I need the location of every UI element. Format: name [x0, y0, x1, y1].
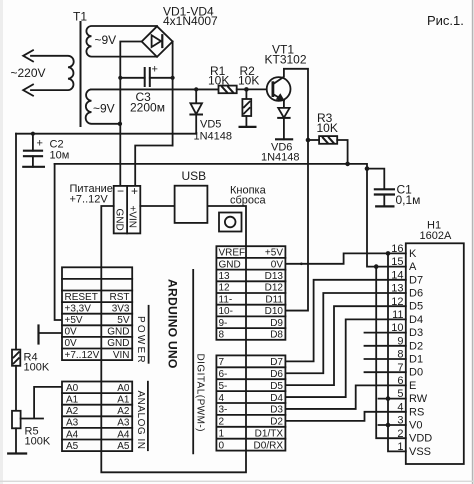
svg-text:D9: D9 [270, 318, 283, 329]
svg-text:KT3102: KT3102 [265, 53, 307, 67]
svg-text:2: 2 [397, 428, 403, 440]
svg-text:VD5: VD5 [200, 119, 221, 131]
wire R5 to ground [15, 428, 17, 453]
svg-text:~9V: ~9V [95, 33, 117, 47]
svg-text:D6: D6 [270, 369, 283, 380]
junction C2 plus [31, 132, 35, 136]
LCD pin7 D0 lead [365, 371, 406, 373]
svg-text:A0: A0 [66, 383, 79, 394]
wire B vertical to +5V pin [55, 164, 62, 320]
svg-text:1602A: 1602A [420, 230, 452, 242]
VT1 base bar [271, 83, 274, 96]
wire jog bridge+ to +VIN [135, 146, 172, 186]
svg-text:V0: V0 [409, 420, 422, 432]
svg-text:A0: A0 [117, 383, 130, 394]
svg-text:1N4148: 1N4148 [261, 152, 300, 164]
wire bridge left corner to C3 minus [120, 42, 141, 186]
svg-text:+7..12V: +7..12V [70, 194, 109, 206]
svg-text:D1/TX: D1/TX [255, 429, 284, 440]
capacitor C1 [375, 189, 394, 206]
svg-text:D6: D6 [409, 288, 423, 300]
resistor R1 [219, 86, 237, 94]
svg-text:10K: 10K [208, 74, 229, 88]
svg-text:POWER: POWER [135, 316, 146, 365]
rail R1 to VT1 base [237, 88, 273, 90]
junction ground line / V0 pin [386, 423, 391, 428]
LCD ground vertical [388, 253, 406, 451]
svg-text:A2: A2 [66, 406, 79, 417]
ground bar under R5 [8, 452, 26, 454]
LCD H1 box [406, 243, 464, 464]
svg-text:GND: GND [114, 209, 125, 231]
ground bar under R2 [240, 126, 256, 128]
svg-text:A2: A2 [117, 406, 130, 417]
svg-text:+: + [152, 64, 158, 76]
Arduino UNO outer box [101, 206, 246, 472]
digital lower table labels [219, 357, 284, 451]
ANALOG IN bracket [147, 382, 149, 451]
svg-text:6-: 6- [219, 369, 228, 380]
R5 wiper tap to A0 [21, 387, 62, 419]
svg-text:D12: D12 [265, 283, 284, 294]
junction bridge plus / C3 plus [171, 76, 175, 80]
svg-text:D11: D11 [265, 294, 283, 305]
VT1 collector [273, 69, 308, 311]
svg-text:2: 2 [219, 417, 225, 428]
VT1 emitter [273, 94, 284, 108]
wire D2 row to LCD pin4 RS [285, 412, 405, 421]
svg-text:4x1N4007: 4x1N4007 [163, 14, 218, 28]
svg-text:ARDUINO UNO: ARDUINO UNO [166, 279, 180, 369]
svg-text:+: + [131, 184, 138, 198]
svg-text:7: 7 [397, 362, 403, 374]
svg-text:3V3: 3V3 [112, 303, 130, 314]
svg-text:6: 6 [397, 375, 403, 387]
digital pin table upper [216, 246, 285, 340]
svg-text:+: + [37, 138, 43, 150]
svg-text:A4: A4 [117, 429, 130, 440]
svg-text:A3: A3 [66, 418, 79, 429]
0V ground stub left of power table [39, 326, 63, 344]
transformer T1 primary winding [31, 56, 74, 90]
svg-text:A5: A5 [117, 441, 130, 452]
left vertical wire to R4 [15, 134, 17, 350]
text labels [11, 5, 338, 136]
main rail winding to R1 [91, 88, 219, 90]
svg-text:0,1м: 0,1м [396, 193, 421, 207]
svg-text:5: 5 [397, 388, 403, 400]
svg-text:8: 8 [397, 349, 403, 361]
transistor VT1 circle [267, 77, 291, 101]
svg-text:T1: T1 [73, 10, 87, 24]
svg-text:D3: D3 [270, 405, 283, 416]
svg-text:12: 12 [219, 283, 231, 294]
capacitor C2 [24, 134, 42, 167]
svg-text:1: 1 [219, 429, 225, 440]
svg-text:D2: D2 [409, 340, 423, 352]
wire R4 to R5 [15, 366, 17, 411]
bridge rectifier VD1-VD4 diamond [142, 26, 173, 57]
svg-text:9-: 9- [219, 318, 228, 329]
LCD pin10 D3 lead [365, 332, 406, 334]
svg-text:D5: D5 [270, 381, 283, 392]
diode VD6 [278, 108, 289, 139]
wire bridge right corner down (C3 plus) [172, 42, 174, 146]
wire D3 row to LCD pin6 E [285, 385, 405, 409]
svg-text:~220V: ~220V [11, 66, 46, 80]
svg-text:RW: RW [409, 393, 428, 405]
svg-text:−: − [117, 184, 124, 198]
svg-text:11-: 11- [219, 294, 233, 305]
power table row labels [65, 292, 130, 361]
svg-text:2200м: 2200м [130, 101, 165, 115]
power connector box [114, 186, 141, 234]
svg-text:A4: A4 [66, 429, 79, 440]
LCD pin3 V0 lead [379, 424, 406, 426]
svg-text:GND: GND [219, 259, 241, 270]
ground bar under C1 [376, 205, 393, 207]
wire B +5V net horizontal [55, 164, 385, 189]
svg-text:13: 13 [391, 283, 403, 295]
arrow top lead ~220V [23, 50, 33, 61]
svg-text:5-: 5- [219, 381, 228, 392]
svg-text:16: 16 [391, 243, 403, 255]
reset button [219, 213, 242, 232]
svg-text:0V: 0V [271, 259, 284, 270]
junction +5V net / R3 [345, 162, 350, 167]
junction VT1 base / R2 [244, 87, 249, 92]
svg-text:4: 4 [397, 401, 403, 413]
svg-text:4: 4 [219, 393, 225, 404]
svg-text:A: A [409, 261, 417, 273]
svg-text:0V: 0V [65, 327, 78, 338]
svg-text:D1: D1 [409, 354, 423, 366]
svg-text:15: 15 [391, 256, 403, 268]
svg-text:VREF: VREF [219, 248, 246, 259]
LCD pin9 D2 lead [365, 345, 406, 347]
diode VD5 [190, 89, 202, 133]
svg-text:RS: RS [409, 406, 424, 418]
capacitor C3 plates [120, 68, 172, 86]
junction bridge minus / C3 minus [118, 76, 122, 80]
junction +5V net / LCD A branch [365, 166, 370, 171]
svg-text:VSS: VSS [409, 446, 431, 458]
junction ground line / K pin [386, 251, 391, 256]
svg-text:RST: RST [110, 292, 130, 303]
svg-text:A1: A1 [66, 395, 79, 406]
wire D6 row to LCD pin13 [285, 293, 405, 373]
secondary winding lower ~9V [86, 89, 219, 123]
ground bar under C2 [23, 166, 44, 168]
DIGITAL bracket [192, 270, 194, 454]
VDD vertical to pin2 [376, 267, 406, 439]
svg-text:D13: D13 [265, 271, 284, 282]
transformer T1 core [80, 22, 82, 126]
svg-text:13: 13 [219, 271, 231, 282]
svg-text:D7: D7 [270, 357, 283, 368]
svg-text:D8: D8 [270, 330, 283, 341]
left pin table POWER [62, 267, 132, 360]
LCD pin5 RW lead [379, 398, 406, 400]
LCD pin8 D1 lead [365, 358, 406, 360]
arrow bottom lead ~220V [23, 85, 33, 96]
svg-text:100K: 100K [24, 362, 50, 374]
svg-text:USB: USB [182, 169, 207, 183]
wire C2 rail to C3+ vertical [16, 133, 196, 135]
svg-text:10м: 10м [50, 150, 70, 162]
svg-text:1N4148: 1N4148 [194, 131, 233, 143]
svg-text:A5: A5 [66, 441, 79, 452]
svg-text:10K: 10K [238, 74, 259, 88]
svg-text:10-: 10- [219, 306, 233, 317]
svg-text:Рис.1.: Рис.1. [427, 13, 464, 28]
svg-text:VDD: VDD [409, 433, 432, 445]
svg-text:K: K [409, 248, 417, 260]
svg-text:D10: D10 [265, 306, 284, 317]
svg-text:12: 12 [391, 296, 403, 308]
svg-text:VIN: VIN [113, 350, 130, 361]
POWER bracket [148, 306, 150, 363]
wire D4 row to LCD pin11 [285, 319, 405, 397]
resistor R2 [242, 89, 251, 127]
LCD pin names [409, 248, 432, 458]
svg-text:+5V: +5V [65, 315, 83, 326]
digital pin table lower [216, 355, 285, 450]
svg-text:GND: GND [107, 338, 129, 349]
LCD pin numbers [391, 243, 403, 453]
svg-text:10K: 10K [317, 121, 338, 135]
VDD net dotB down to A pin [367, 169, 406, 267]
bridge diode symbol [152, 35, 163, 47]
svg-text:D4: D4 [270, 393, 283, 404]
junction collector / R3 [306, 138, 311, 143]
svg-text:11: 11 [392, 309, 403, 321]
svg-text:10: 10 [391, 322, 403, 334]
svg-text:1: 1 [397, 441, 403, 453]
wire D7 row to LCD pin14 [285, 280, 405, 362]
svg-text:9: 9 [397, 335, 403, 347]
analog table row labels [66, 383, 130, 452]
svg-text:~9V: ~9V [93, 102, 115, 116]
svg-text:D3: D3 [409, 327, 423, 339]
svg-text:D7: D7 [409, 274, 423, 286]
svg-text:100K: 100K [25, 436, 51, 448]
svg-text:D5: D5 [409, 301, 423, 313]
resistor R3 [308, 136, 348, 164]
svg-text:+VIN: +VIN [126, 206, 137, 229]
svg-text:5V: 5V [117, 315, 130, 326]
svg-text:ANALOG IN: ANALOG IN [135, 391, 146, 450]
svg-text:DIGITAL(PWM-): DIGITAL(PWM-) [195, 354, 206, 432]
svg-text:7: 7 [219, 357, 225, 368]
resistor R5 [12, 411, 21, 429]
svg-text:0V: 0V [65, 338, 78, 349]
svg-text:E: E [409, 380, 416, 392]
svg-text:A1: A1 [117, 395, 130, 406]
digital upper table labels [219, 248, 284, 341]
0V wire to LCD K and ground line [285, 253, 405, 263]
svg-text:14: 14 [391, 269, 403, 281]
wire D5 row to LCD pin12 [285, 306, 405, 385]
svg-text:D4: D4 [409, 314, 423, 326]
svg-text:+5V: +5V [265, 248, 283, 259]
svg-text:0: 0 [219, 440, 225, 451]
junction ground line / RW pin [386, 396, 391, 401]
junction wire A / minus lead [118, 122, 122, 126]
svg-text:3-: 3- [219, 405, 228, 416]
svg-text:3: 3 [397, 415, 403, 427]
ground bar under VD6 [276, 138, 292, 140]
svg-text:GND: GND [107, 327, 129, 338]
junction A pin / VDD branch [374, 264, 379, 269]
svg-text:сброса: сброса [230, 195, 267, 207]
svg-text:A3: A3 [117, 418, 130, 429]
svg-text:D2: D2 [270, 417, 283, 428]
USB box [175, 186, 208, 223]
svg-text:D0/RX: D0/RX [254, 440, 284, 451]
resistor R4 [12, 350, 20, 366]
junction small 0V wire [300, 263, 303, 266]
svg-text:+3,3V: +3,3V [65, 303, 92, 314]
secondary winding upper ~9V [86, 26, 157, 57]
svg-text:+7..12V: +7..12V [65, 350, 100, 361]
junction rail / VD5 anode [194, 87, 198, 91]
svg-text:8: 8 [219, 330, 225, 341]
svg-text:RESET: RESET [65, 292, 98, 303]
analog pin table [62, 382, 132, 452]
svg-text:D0: D0 [409, 367, 423, 379]
